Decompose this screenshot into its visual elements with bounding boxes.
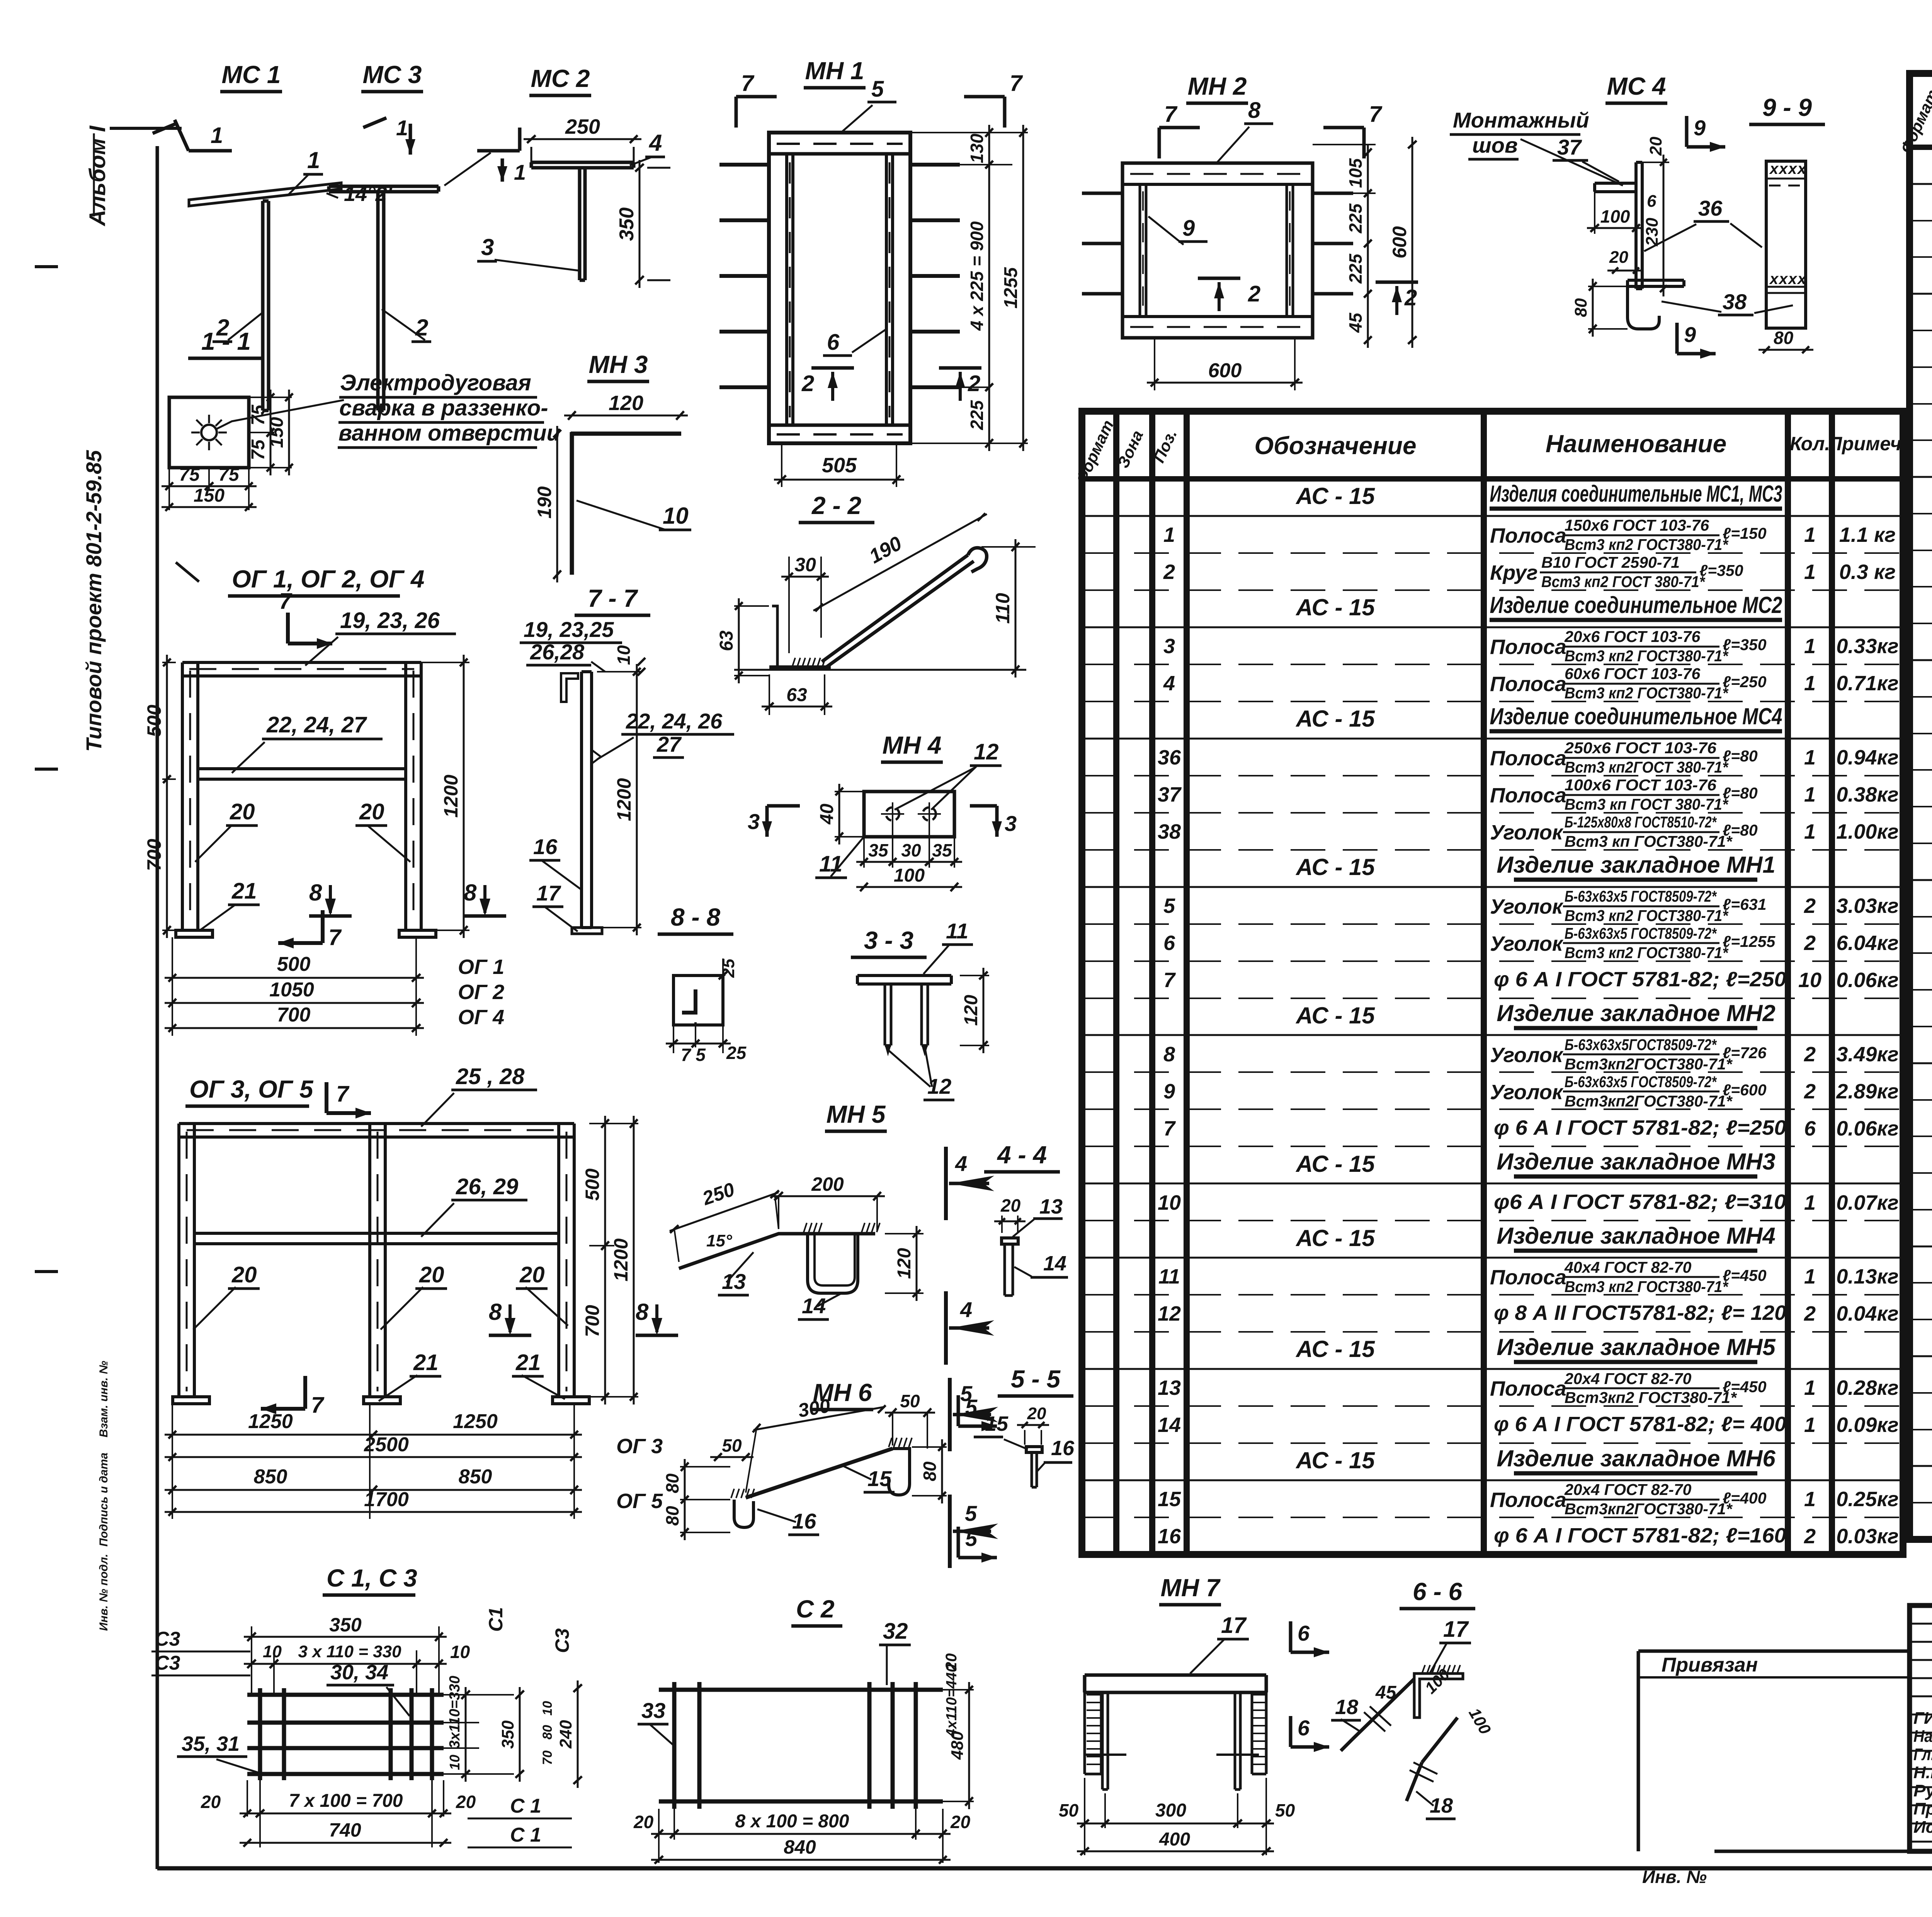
svg-text:7: 7 xyxy=(1163,1117,1176,1140)
OG frame mid rail (pos 22,24,27) xyxy=(198,767,406,770)
2-2 bent strip with hook xyxy=(772,606,794,669)
mesh vertical bar xyxy=(914,1682,918,1809)
svg-text:30: 30 xyxy=(901,840,921,860)
C1 bottom dims xyxy=(259,1780,261,1847)
svg-text:12: 12 xyxy=(974,739,999,764)
7-7 mid weld triangle xyxy=(592,750,601,764)
svg-text:2500: 2500 xyxy=(364,1433,409,1456)
svg-text:Изделие закладное МН3: Изделие закладное МН3 xyxy=(1497,1149,1775,1175)
svg-text:ℓ=631: ℓ=631 xyxy=(1723,896,1767,913)
MH1 right dims 130 4x225=900 225 1255 xyxy=(910,132,1028,133)
svg-text:20: 20 xyxy=(1609,248,1628,267)
svg-text:22, 24, 26: 22, 24, 26 xyxy=(626,709,723,733)
MH5 strip: slanted + horizontal with hat profile xyxy=(679,1234,875,1268)
svg-text:2: 2 xyxy=(1804,894,1816,918)
MH1 top flange inner xyxy=(769,152,910,156)
svg-text:ℓ=80: ℓ=80 xyxy=(1723,747,1758,765)
MH2 bottom dim 600 xyxy=(1154,338,1155,390)
svg-text:АС - 15: АС - 15 xyxy=(1295,1225,1375,1251)
svg-text:Типовой проект 801-2-59.85: Типовой проект 801-2-59.85 xyxy=(82,450,106,752)
OG3 section mark 7 bottom xyxy=(303,1376,307,1409)
svg-text:4х110=440: 4х110=440 xyxy=(944,1664,960,1737)
svg-text:МС 1: МС 1 xyxy=(222,61,281,89)
svg-text:1: 1 xyxy=(1804,672,1816,695)
svg-text:ℓ=450: ℓ=450 xyxy=(1723,1267,1767,1284)
svg-text:С3: С3 xyxy=(551,1628,573,1653)
MH1 view arrow 2 (inside) xyxy=(811,366,854,370)
svg-text:Наименование: Наименование xyxy=(1546,430,1726,458)
MH1 left angle verticals xyxy=(785,154,788,425)
svg-text:x: x xyxy=(1797,160,1807,177)
MH2 bottom flange inner xyxy=(1122,315,1313,318)
svg-text:Б-125х80х8 ГОСТ8510-72*: Б-125х80х8 ГОСТ8510-72* xyxy=(1565,813,1717,831)
svg-text:37: 37 xyxy=(1557,135,1582,159)
OG3 posts xyxy=(177,1124,180,1397)
svg-text:Б-63х63х5ГОСТ8509-72*: Б-63х63х5ГОСТ8509-72* xyxy=(1565,1036,1717,1054)
7-7 top angle piece xyxy=(561,673,578,702)
svg-text:Полоса: Полоса xyxy=(1490,1488,1566,1512)
svg-text:3: 3 xyxy=(1163,635,1175,658)
MH6 dim 50 right xyxy=(885,1412,935,1414)
svg-text:480: 480 xyxy=(948,1731,967,1760)
svg-text:Электродуговая: Электродуговая xyxy=(340,370,531,395)
svg-text:40: 40 xyxy=(817,804,837,825)
MH6 dims 80 80 left xyxy=(680,1466,730,1468)
MH7 angle plate xyxy=(1085,1674,1266,1677)
svg-text:6: 6 xyxy=(1298,1716,1310,1740)
svg-text:6: 6 xyxy=(1298,1621,1310,1645)
svg-text:Н.контр: Н.контр xyxy=(1913,1763,1932,1782)
MH6 section marks 5 xyxy=(957,1395,960,1426)
svg-text:350: 350 xyxy=(498,1720,517,1749)
4-4 section marks 4 xyxy=(944,1147,948,1220)
sheet frame bottom border xyxy=(157,1866,1932,1871)
svg-text:Вст3 кп ГОСТ380-71*: Вст3 кп ГОСТ380-71* xyxy=(1565,833,1733,850)
svg-text:14: 14 xyxy=(1158,1413,1181,1437)
svg-text:0.25кг: 0.25кг xyxy=(1836,1488,1898,1511)
OG right dim 1200 xyxy=(421,662,469,663)
svg-text:АС - 15: АС - 15 xyxy=(1295,594,1375,620)
svg-text:20: 20 xyxy=(230,799,255,824)
MH2 anchor ticks right xyxy=(1313,192,1353,195)
svg-text:60х6 ГОСТ 103-76: 60х6 ГОСТ 103-76 xyxy=(1565,665,1701,683)
svg-text:Изделие закладное МН2: Изделие закладное МН2 xyxy=(1497,1000,1775,1026)
MC2 dim 250 xyxy=(524,138,641,140)
svg-text:14: 14 xyxy=(1043,1252,1066,1275)
svg-text:80: 80 xyxy=(1571,298,1590,317)
MH2 section marks 7 xyxy=(1158,128,1161,158)
svg-text:500: 500 xyxy=(277,953,311,976)
svg-text:0.04кг: 0.04кг xyxy=(1836,1302,1898,1325)
svg-text:20: 20 xyxy=(950,1812,971,1832)
MC2 dim 350 xyxy=(639,160,641,288)
privyazan block xyxy=(1638,1650,1910,1653)
svg-text:6: 6 xyxy=(1804,1117,1816,1140)
svg-text:ℓ=400: ℓ=400 xyxy=(1723,1489,1767,1507)
svg-text:740: 740 xyxy=(329,1819,361,1841)
svg-text:38: 38 xyxy=(1158,820,1181,843)
right specification table grid xyxy=(1897,73,1932,1539)
svg-text:80: 80 xyxy=(662,1506,682,1526)
svg-text:Обозначение: Обозначение xyxy=(1254,432,1416,460)
svg-text:ℓ=350: ℓ=350 xyxy=(1723,636,1767,654)
8-8 dims bottom 75 25 xyxy=(673,1025,674,1053)
MH6 left hook (pos 16) xyxy=(734,1500,753,1527)
7-7 vertical bar xyxy=(580,672,583,928)
svg-text:7: 7 xyxy=(1369,102,1383,127)
MH7 left hatch xyxy=(1087,1694,1101,1696)
MC3 section marks xyxy=(363,118,386,128)
svg-text:1: 1 xyxy=(1804,1265,1816,1288)
svg-text:21: 21 xyxy=(231,878,257,904)
C1 top dims xyxy=(251,1626,252,1695)
svg-text:7: 7 xyxy=(311,1393,325,1418)
MC4 bottom plate (pos 38 horizontal) xyxy=(1628,279,1684,282)
svg-text:Вст3кп2ГОСТ380-71*: Вст3кп2ГОСТ380-71* xyxy=(1565,1092,1733,1110)
svg-text:0.33кг: 0.33кг xyxy=(1836,635,1898,658)
svg-text:5: 5 xyxy=(965,1501,977,1525)
svg-text:4: 4 xyxy=(955,1151,967,1176)
svg-text:10: 10 xyxy=(663,503,689,529)
svg-text:7: 7 xyxy=(328,925,342,950)
2-2 dim 110 xyxy=(981,546,1036,548)
svg-text:19, 23, 26: 19, 23, 26 xyxy=(340,608,440,633)
MH5 hat profile (pos 14) xyxy=(808,1234,858,1293)
MH7 section marks 6 xyxy=(1289,1621,1293,1652)
MH6 dim 50 small xyxy=(710,1456,753,1458)
2-2 dim 30 xyxy=(788,557,790,653)
svg-text:МН 7: МН 7 xyxy=(1161,1574,1221,1602)
svg-text:250х6 ГОСТ 103-76: 250х6 ГОСТ 103-76 xyxy=(1564,739,1717,757)
svg-text:150: 150 xyxy=(194,485,224,506)
svg-text:3: 3 xyxy=(481,234,494,260)
svg-text:36: 36 xyxy=(1158,746,1181,769)
svg-text:225: 225 xyxy=(1345,203,1366,233)
svg-text:1050: 1050 xyxy=(269,979,314,1001)
svg-text:2: 2 xyxy=(801,371,814,396)
svg-text:1: 1 xyxy=(396,116,408,140)
svg-text:φ 6 А I ГОСТ 5781-82; ℓ=250: φ 6 А I ГОСТ 5781-82; ℓ=250 xyxy=(1494,968,1786,991)
svg-text:С 2: С 2 xyxy=(796,1595,835,1623)
9-9 plate elevation xyxy=(1766,161,1806,328)
MH7 right hatch xyxy=(1252,1694,1266,1696)
svg-text:Б-63х63х5 ГОСТ8509-72*: Б-63х63х5 ГОСТ8509-72* xyxy=(1565,887,1717,905)
svg-text:20х4 ГОСТ 82-70: 20х4 ГОСТ 82-70 xyxy=(1564,1370,1692,1388)
svg-text:С1: С1 xyxy=(485,1607,507,1632)
svg-text:Изделие соединительное МС4: Изделие соединительное МС4 xyxy=(1490,703,1782,729)
MC2 top plate (pos 4) xyxy=(531,161,634,164)
svg-text:МС 3: МС 3 xyxy=(363,61,422,89)
svg-text:75: 75 xyxy=(248,439,269,460)
svg-text:Изделие закладное МН6: Изделие закладное МН6 xyxy=(1497,1445,1776,1471)
svg-text:Полоса: Полоса xyxy=(1490,747,1566,770)
MH3 angle vertical leg xyxy=(570,432,574,575)
svg-text:Полоса: Полоса xyxy=(1490,1377,1566,1400)
OG frame feet xyxy=(176,930,213,937)
svg-text:Вст3кп2 ГОСТ380-71*: Вст3кп2 ГОСТ380-71* xyxy=(1565,1389,1737,1406)
svg-text:Привязан: Привязан xyxy=(1662,1654,1758,1676)
svg-text:1: 1 xyxy=(1804,1413,1816,1437)
svg-text:80: 80 xyxy=(662,1473,682,1493)
svg-text:35: 35 xyxy=(868,840,889,860)
svg-text:3 - 3: 3 - 3 xyxy=(864,926,913,954)
svg-text:20: 20 xyxy=(419,1262,444,1287)
OG3 mid rail (pos 26,29) xyxy=(194,1232,559,1235)
svg-text:36: 36 xyxy=(1698,196,1723,220)
MC1 top bar (pos 1, slanted strip) xyxy=(189,183,341,206)
svg-text:2: 2 xyxy=(1248,281,1260,306)
svg-text:Вст3 кп2 ГОСТ380-71*: Вст3 кп2 ГОСТ380-71* xyxy=(1565,536,1729,553)
svg-text:500: 500 xyxy=(143,705,165,737)
svg-text:1: 1 xyxy=(1804,635,1816,658)
mesh horizontal bar xyxy=(247,1746,444,1750)
MH1 right angle verticals xyxy=(885,154,888,425)
svg-text:20: 20 xyxy=(1646,136,1665,156)
svg-text:1: 1 xyxy=(211,123,223,148)
svg-text:22, 24, 27: 22, 24, 27 xyxy=(266,712,367,737)
MH4 holes xyxy=(886,807,899,821)
svg-text:x: x xyxy=(1778,160,1788,177)
MC2 stem (pos 3) xyxy=(578,168,582,280)
svg-text:2: 2 xyxy=(1804,1302,1816,1325)
OG3 feet xyxy=(173,1397,209,1404)
svg-text:АС - 15: АС - 15 xyxy=(1295,854,1375,880)
MH5 dim 250 slanted xyxy=(670,1192,779,1231)
svg-text:1: 1 xyxy=(1804,1191,1816,1214)
svg-text:0.94кг: 0.94кг xyxy=(1836,746,1898,769)
svg-text:Инв. № подл.: Инв. № подл. xyxy=(97,1554,110,1631)
svg-text:75: 75 xyxy=(218,465,240,485)
OG frame right post xyxy=(404,662,407,930)
MC4 bottom angle hook xyxy=(1628,286,1659,329)
svg-text:3.03кг: 3.03кг xyxy=(1836,894,1898,918)
svg-text:С 1, С 3: С 1, С 3 xyxy=(327,1564,417,1592)
svg-text:Кол.: Кол. xyxy=(1790,433,1830,455)
svg-text:12: 12 xyxy=(1158,1302,1181,1325)
svg-text:шов: шов xyxy=(1472,133,1518,157)
svg-text:14: 14 xyxy=(802,1294,826,1318)
svg-text:0.09кг: 0.09кг xyxy=(1836,1413,1898,1437)
svg-text:ОГ 3: ОГ 3 xyxy=(616,1435,663,1458)
svg-text:x: x xyxy=(1769,160,1779,177)
OG3 top rail (pos 25,28) xyxy=(179,1122,574,1125)
svg-text:Полоса: Полоса xyxy=(1490,784,1566,807)
svg-text:8 х 100 = 800: 8 х 100 = 800 xyxy=(735,1811,849,1832)
svg-text:840: 840 xyxy=(784,1836,816,1858)
svg-text:ℓ=80: ℓ=80 xyxy=(1723,784,1758,802)
OG section mark 7 bottom xyxy=(321,910,325,943)
svg-text:Уголок: Уголок xyxy=(1490,821,1564,844)
svg-text:ℓ=450: ℓ=450 xyxy=(1723,1378,1767,1396)
svg-text:11: 11 xyxy=(946,919,968,943)
svg-text:33: 33 xyxy=(641,1698,665,1723)
4-4 bolt head (pos 13) xyxy=(1002,1238,1018,1244)
MH1 bottom flange inner xyxy=(769,424,910,427)
svg-text:Изделие закладное МН5: Изделие закладное МН5 xyxy=(1497,1334,1776,1360)
mesh horizontal bar xyxy=(247,1721,444,1725)
svg-text:0.13кг: 0.13кг xyxy=(1836,1265,1898,1288)
9-9 dim 80 xyxy=(1739,328,1766,348)
svg-text:φ 6 А I ГОСТ 5781-82; ℓ=250: φ 6 А I ГОСТ 5781-82; ℓ=250 xyxy=(1494,1116,1786,1139)
svg-text:ОГ 2: ОГ 2 xyxy=(458,981,504,1004)
MH4 dims 35 30 35 xyxy=(863,837,865,868)
svg-text:Инв. №: Инв. № xyxy=(1642,1867,1707,1887)
svg-text:2: 2 xyxy=(1804,1525,1816,1548)
svg-text:300: 300 xyxy=(1155,1800,1186,1821)
OG3 view arrows 8 xyxy=(489,1334,531,1337)
svg-text:Б-63х63х5 ГОСТ8509-72*: Б-63х63х5 ГОСТ8509-72* xyxy=(1565,924,1717,942)
MC4 small top plate (pos 37) xyxy=(1595,182,1636,185)
9-9 leaders 36 38 xyxy=(1730,223,1762,247)
svg-text:27: 27 xyxy=(656,732,682,756)
svg-text:φ 6 А I ГОСТ 5781-82; ℓ=160: φ 6 А I ГОСТ 5781-82; ℓ=160 xyxy=(1494,1524,1786,1547)
svg-text:15°: 15° xyxy=(706,1231,732,1250)
svg-text:850: 850 xyxy=(459,1466,492,1488)
svg-text:Уголок: Уголок xyxy=(1490,1081,1564,1104)
svg-text:ОГ 5: ОГ 5 xyxy=(616,1490,663,1513)
svg-text:3: 3 xyxy=(748,809,760,834)
svg-text:600: 600 xyxy=(1389,226,1410,259)
svg-text:ℓ=1255: ℓ=1255 xyxy=(1723,933,1776,950)
svg-text:6: 6 xyxy=(1647,192,1656,211)
svg-text:Вст3 кп2 ГОСТ380-71*: Вст3 кп2 ГОСТ380-71* xyxy=(1565,684,1729,702)
svg-text:0.07кг: 0.07кг xyxy=(1836,1191,1898,1214)
svg-text:10: 10 xyxy=(1158,1191,1181,1214)
7-7 dim 1200 xyxy=(597,671,641,672)
svg-text:Уголок: Уголок xyxy=(1490,895,1564,918)
svg-text:120: 120 xyxy=(609,392,643,415)
MH5 weld hatches xyxy=(804,1223,807,1232)
svg-text:ℓ=80: ℓ=80 xyxy=(1723,821,1758,839)
svg-text:17: 17 xyxy=(536,881,561,905)
svg-text:АС - 15: АС - 15 xyxy=(1295,1151,1375,1177)
svg-text:8: 8 xyxy=(489,1299,502,1325)
svg-text:2.89кг: 2.89кг xyxy=(1836,1080,1898,1103)
svg-text:1: 1 xyxy=(514,160,526,184)
svg-text:35: 35 xyxy=(932,840,952,860)
svg-text:0.03кг: 0.03кг xyxy=(1836,1525,1898,1548)
2-2 dim 63 left xyxy=(734,605,769,607)
svg-text:25: 25 xyxy=(726,1043,747,1063)
svg-text:3: 3 xyxy=(1005,811,1017,836)
svg-text:120: 120 xyxy=(894,1248,915,1279)
svg-text:МН 3: МН 3 xyxy=(589,351,648,378)
mesh vertical bar xyxy=(430,1688,434,1780)
svg-text:ОГ 1, ОГ 2, ОГ 4: ОГ 1, ОГ 2, ОГ 4 xyxy=(232,565,424,593)
MH3 angle horizontal leg (pos 10) xyxy=(571,432,681,436)
svg-text:ОГ 1: ОГ 1 xyxy=(458,955,504,979)
MH2 view arrow 2 inside xyxy=(1198,277,1240,280)
MC4 dims xyxy=(1587,227,1644,229)
svg-text:16: 16 xyxy=(1158,1525,1181,1548)
svg-text:сварка в раззенко-: сварка в раззенко- xyxy=(339,395,548,421)
2-2 dim 190 (slanted) xyxy=(813,514,987,611)
svg-text:21: 21 xyxy=(413,1350,439,1375)
OG left dims 500 700 xyxy=(162,662,176,663)
MH4 dim 40 xyxy=(835,791,864,792)
svg-text:7: 7 xyxy=(1010,71,1023,96)
svg-text:0.06кг: 0.06кг xyxy=(1836,1117,1898,1140)
svg-text:Полоса: Полоса xyxy=(1490,524,1566,547)
svg-text:63: 63 xyxy=(786,685,807,705)
svg-text:30, 34: 30, 34 xyxy=(330,1661,388,1684)
svg-text:10: 10 xyxy=(450,1642,470,1662)
svg-text:35, 31: 35, 31 xyxy=(182,1732,240,1755)
C2 bottom dims xyxy=(673,1809,675,1840)
svg-text:Б-63х63х5 ГОСТ8509-72*: Б-63х63х5 ГОСТ8509-72* xyxy=(1565,1073,1717,1091)
svg-text:80: 80 xyxy=(920,1461,940,1481)
svg-text:МН 1: МН 1 xyxy=(805,57,864,85)
3-3 top plate xyxy=(857,974,951,977)
svg-text:75: 75 xyxy=(179,465,200,485)
svg-text:100: 100 xyxy=(894,865,925,886)
svg-text:225: 225 xyxy=(967,400,987,430)
svg-text:8: 8 xyxy=(636,1299,649,1325)
1-1 plate with welded hole xyxy=(169,397,249,468)
svg-text:5: 5 xyxy=(871,77,884,102)
2-2 weld hatch under base xyxy=(792,658,795,667)
svg-text:10: 10 xyxy=(1798,969,1821,992)
top-left frame tick xyxy=(110,127,182,130)
MH5 dim 120 xyxy=(885,1233,923,1234)
svg-text:70: 70 xyxy=(540,1750,555,1765)
svg-text:190: 190 xyxy=(534,486,555,519)
MH1 bottom dim 505 xyxy=(781,443,782,487)
svg-text:32: 32 xyxy=(883,1619,908,1644)
svg-text:Вст3 кп2 ГОСТ380-71*: Вст3 кп2 ГОСТ380-71* xyxy=(1565,1278,1729,1296)
svg-text:Монтажный: Монтажный xyxy=(1453,108,1589,132)
mesh vertical bar xyxy=(697,1682,702,1809)
svg-text:1: 1 xyxy=(1804,1488,1816,1511)
svg-text:100х6 ГОСТ 103-76: 100х6 ГОСТ 103-76 xyxy=(1565,776,1717,794)
5-5 bolt pin (pos 16) xyxy=(1031,1452,1033,1487)
svg-text:φ 8 А II ГОСТ5781-82; ℓ= 120: φ 8 А II ГОСТ5781-82; ℓ= 120 xyxy=(1494,1301,1786,1325)
svg-text:Уголок: Уголок xyxy=(1490,932,1564,955)
svg-text:x: x xyxy=(1787,271,1798,288)
svg-text:6.04кг: 6.04кг xyxy=(1836,931,1898,955)
svg-text:11: 11 xyxy=(819,851,842,877)
mesh horizontal bar xyxy=(247,1693,444,1697)
svg-text:С3: С3 xyxy=(155,1628,180,1650)
mesh vertical bar xyxy=(389,1688,393,1780)
svg-text:230: 230 xyxy=(1643,218,1662,247)
svg-text:Вст3 кп2 ГОСТ 380-71*: Вст3 кп2 ГОСТ 380-71* xyxy=(1541,573,1706,591)
svg-text:50: 50 xyxy=(900,1391,920,1411)
svg-text:АС - 15: АС - 15 xyxy=(1295,1003,1375,1028)
svg-text:20: 20 xyxy=(1000,1195,1021,1216)
svg-text:Круг: Круг xyxy=(1490,561,1538,584)
svg-text:2: 2 xyxy=(1804,1043,1816,1066)
OG3 section mark 7 top xyxy=(325,1082,328,1113)
svg-text:0.38кг: 0.38кг xyxy=(1836,783,1898,806)
svg-text:1250: 1250 xyxy=(453,1410,498,1433)
MH2 outer frame xyxy=(1122,163,1313,338)
svg-text:30: 30 xyxy=(794,554,816,575)
svg-text:7: 7 xyxy=(741,71,755,96)
6-6 rebar legs with break marks xyxy=(1352,1679,1414,1739)
svg-text:Изделие закладное МН1: Изделие закладное МН1 xyxy=(1497,852,1775,878)
svg-text:8: 8 xyxy=(1163,1043,1175,1066)
MH1 view arrow 2 (right) xyxy=(939,366,981,370)
svg-text:1: 1 xyxy=(1804,820,1816,843)
svg-text:Уголок: Уголок xyxy=(1490,1044,1564,1067)
6-6 angle (rotated) xyxy=(1414,1674,1463,1718)
svg-text:18: 18 xyxy=(1335,1696,1358,1719)
5-5 dim 20 xyxy=(1024,1430,1026,1445)
svg-text:Вст3 кп2 ГОСТ380-71*: Вст3 кп2 ГОСТ380-71* xyxy=(1565,647,1729,665)
svg-text:ОГ 4: ОГ 4 xyxy=(458,1006,504,1029)
MH1 anchor ticks left xyxy=(719,163,769,167)
